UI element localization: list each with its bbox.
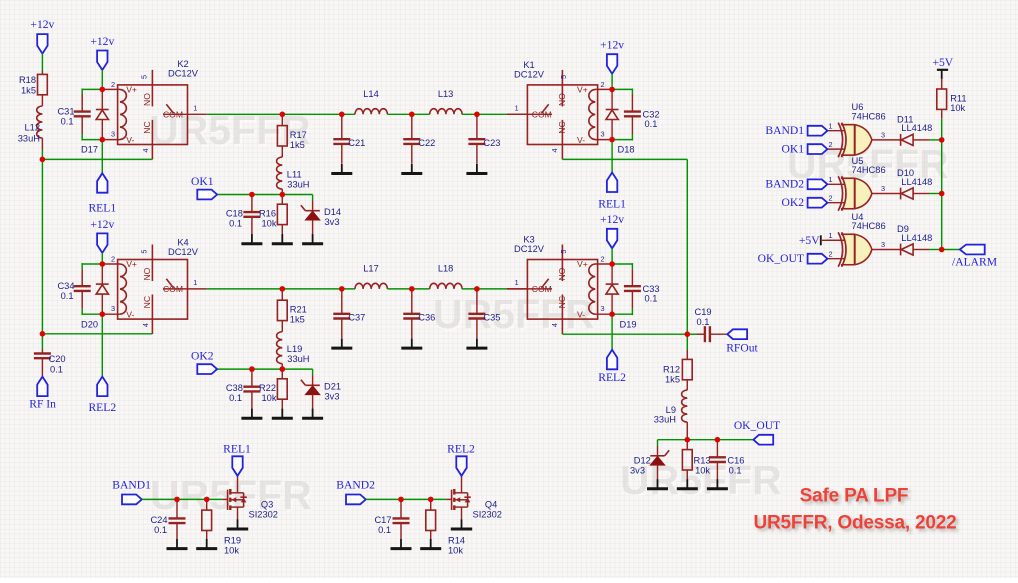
svg-text:NC: NC — [557, 296, 567, 308]
svg-text:0.1: 0.1 — [61, 291, 74, 301]
port OK_OUT — [753, 435, 773, 445]
wire — [102, 139, 120, 141]
svg-text:R11: R11 — [950, 93, 966, 103]
junction dots overlay — [40, 87, 945, 503]
svg-text:74HC86: 74HC86 — [852, 165, 886, 175]
svg-text:REL2: REL2 — [447, 443, 475, 456]
svg-text:0.1: 0.1 — [645, 294, 658, 304]
wire — [41, 54, 43, 71]
svg-text:+12v: +12v — [600, 213, 624, 226]
svg-text:OK1: OK1 — [781, 142, 804, 155]
diode D19 — [611, 264, 613, 284]
svg-text:OK2: OK2 — [191, 350, 214, 363]
diode D17 — [101, 89, 103, 109]
wire — [102, 88, 120, 90]
svg-text:V-: V- — [577, 135, 585, 145]
svg-text:33uH: 33uH — [287, 179, 309, 189]
svg-text:RF In: RF In — [29, 398, 56, 411]
resistor R17 / inductor L11 / OK1 net — [281, 114, 283, 125]
svg-text:SI2302: SI2302 — [473, 510, 502, 520]
svg-text:C36: C36 — [418, 313, 435, 323]
svg-text:REL1: REL1 — [223, 443, 251, 456]
svg-text:BAND1: BAND1 — [112, 479, 151, 492]
svg-text:R12: R12 — [663, 365, 680, 375]
wire — [101, 253, 103, 264]
port /ALARM — [960, 245, 985, 255]
svg-text:33uH: 33uH — [654, 415, 676, 425]
svg-text:1: 1 — [829, 231, 833, 240]
inductor L12 — [37, 106, 43, 138]
svg-text:L14: L14 — [363, 89, 379, 99]
svg-text:3: 3 — [111, 304, 115, 313]
svg-text:C21: C21 — [348, 138, 365, 148]
svg-text:OK_OUT: OK_OUT — [758, 252, 804, 265]
svg-text:2: 2 — [829, 194, 833, 203]
capacitor C21 — [341, 114, 343, 139]
svg-text:3v3: 3v3 — [325, 217, 340, 227]
svg-text:R14: R14 — [448, 536, 465, 546]
svg-text:1: 1 — [193, 104, 197, 113]
wire — [611, 248, 613, 264]
wire — [562, 333, 687, 335]
svg-text:R22: R22 — [259, 383, 276, 393]
svg-text:UR5FFR, Odessa, 2022: UR5FFR, Odessa, 2022 — [754, 513, 957, 534]
svg-text:K3: K3 — [523, 235, 534, 245]
svg-text:DC12V: DC12V — [514, 70, 545, 80]
svg-text:C34: C34 — [57, 281, 74, 291]
svg-text:+12v: +12v — [90, 35, 114, 48]
capacitor C22 — [411, 114, 413, 139]
svg-text:1k5: 1k5 — [290, 140, 305, 150]
port REL2 — [456, 456, 466, 476]
svg-text:1: 1 — [515, 104, 519, 113]
port REL1 — [97, 173, 107, 193]
svg-text:R16: R16 — [259, 209, 276, 219]
capacitor C33 — [612, 263, 632, 265]
svg-text:V-: V- — [126, 135, 134, 145]
svg-text:D19: D19 — [620, 320, 637, 330]
svg-text:R19: R19 — [224, 536, 241, 546]
svg-text:D18: D18 — [618, 145, 635, 155]
svg-text:V-: V- — [126, 309, 134, 319]
svg-text:1: 1 — [829, 121, 833, 130]
capacitor C36 — [411, 289, 413, 314]
svg-text:R18: R18 — [19, 75, 36, 85]
svg-text:10k: 10k — [695, 465, 710, 475]
wire — [101, 140, 103, 174]
svg-text:2: 2 — [111, 80, 115, 89]
relay K2 — [118, 85, 188, 145]
svg-text:C16: C16 — [727, 455, 744, 465]
svg-text:REL2: REL2 — [598, 371, 626, 384]
svg-text:C31: C31 — [57, 107, 74, 117]
capacitor C34 — [82, 263, 102, 265]
svg-text:5: 5 — [140, 75, 149, 79]
wire — [101, 70, 103, 89]
svg-text:3: 3 — [881, 131, 885, 140]
port RFOut — [727, 329, 747, 339]
svg-text:3: 3 — [881, 240, 885, 249]
svg-text:D21: D21 — [324, 382, 341, 392]
svg-text:COM: COM — [532, 110, 552, 120]
svg-text:R17: R17 — [290, 130, 307, 140]
wire — [102, 263, 120, 265]
svg-text:OK2: OK2 — [781, 196, 804, 209]
svg-text:R13: R13 — [694, 455, 711, 465]
wire — [611, 314, 613, 350]
svg-text:NC: NC — [142, 121, 152, 133]
svg-text:5: 5 — [140, 250, 149, 254]
svg-text:C23: C23 — [483, 138, 500, 148]
port REL2 — [607, 350, 617, 370]
svg-text:L11: L11 — [287, 170, 302, 180]
capacitor C35 — [476, 289, 478, 314]
capacitor C23 — [476, 114, 478, 139]
diode D12 — [657, 440, 659, 446]
svg-text:C35: C35 — [483, 313, 500, 323]
svg-text:COM: COM — [163, 284, 183, 294]
svg-text:/ALARM: /ALARM — [952, 256, 997, 269]
relay K3 — [527, 260, 597, 320]
port REL2 — [97, 377, 107, 397]
svg-text:BAND2: BAND2 — [765, 178, 804, 191]
port OK2 — [197, 364, 217, 374]
svg-text:C33: C33 — [643, 284, 660, 294]
wire — [562, 158, 687, 160]
port REL1 — [607, 173, 617, 193]
svg-text:3v3: 3v3 — [630, 465, 645, 475]
wire — [595, 88, 612, 90]
svg-text:C19: C19 — [695, 307, 712, 317]
svg-text:L17: L17 — [363, 264, 379, 274]
svg-text:0.1: 0.1 — [645, 119, 658, 129]
svg-text:C24: C24 — [150, 515, 167, 525]
diode D20 — [101, 264, 103, 284]
svg-text:OK_OUT: OK_OUT — [734, 419, 780, 432]
svg-text:10k: 10k — [224, 546, 239, 556]
svg-text:K1: K1 — [523, 60, 534, 70]
svg-text:3: 3 — [111, 130, 115, 139]
xor gate U4 — [826, 239, 844, 241]
svg-text:UR5FFR: UR5FFR — [433, 291, 595, 337]
svg-text:1: 1 — [193, 278, 197, 287]
svg-text:C17: C17 — [374, 515, 391, 525]
wire — [41, 159, 43, 333]
svg-text:10k: 10k — [262, 219, 277, 229]
svg-text:+12v: +12v — [30, 18, 54, 31]
svg-text:D20: D20 — [81, 320, 98, 330]
svg-text:NO: NO — [557, 267, 567, 280]
svg-text:COM: COM — [532, 284, 552, 294]
xor gate U5 — [826, 183, 844, 185]
svg-text:+12v: +12v — [90, 218, 114, 231]
inductor L9 — [682, 390, 688, 422]
wire — [102, 313, 120, 315]
svg-text:33uH: 33uH — [287, 354, 309, 364]
svg-text:1k5: 1k5 — [21, 86, 36, 96]
svg-text:2: 2 — [601, 255, 605, 264]
svg-text:10k: 10k — [262, 393, 277, 403]
svg-text:0.1: 0.1 — [697, 317, 710, 327]
svg-text:C37: C37 — [348, 313, 365, 323]
svg-text:OK1: OK1 — [191, 175, 214, 188]
svg-text:0.1: 0.1 — [61, 117, 74, 127]
svg-text:74HC86: 74HC86 — [852, 221, 886, 231]
svg-text:2: 2 — [829, 250, 833, 259]
svg-text:C20: C20 — [49, 354, 66, 364]
svg-text:R21: R21 — [290, 305, 307, 315]
svg-text:V+: V+ — [126, 259, 137, 269]
svg-text:1k5: 1k5 — [290, 315, 305, 325]
svg-text:V-: V- — [577, 309, 585, 319]
wire — [42, 158, 152, 160]
svg-text:1: 1 — [829, 175, 833, 184]
svg-text:K2: K2 — [177, 59, 188, 69]
svg-text:NO: NO — [557, 93, 567, 106]
svg-text:LL4148: LL4148 — [901, 177, 932, 187]
svg-text:BAND1: BAND1 — [765, 124, 804, 137]
wire — [658, 439, 754, 441]
svg-text:UR5FFR: UR5FFR — [150, 472, 312, 518]
capacitor C37 — [341, 289, 343, 314]
svg-text:V+: V+ — [577, 85, 588, 95]
svg-text:L13: L13 — [438, 89, 454, 99]
svg-text:DC12V: DC12V — [514, 244, 545, 254]
svg-text:0.1: 0.1 — [729, 465, 742, 475]
transistor Q3 section wires — [142, 498, 222, 500]
relay K1 — [527, 85, 597, 145]
svg-text:L9: L9 — [666, 405, 676, 415]
svg-text:DC12V: DC12V — [168, 247, 199, 257]
wire — [595, 313, 612, 315]
svg-text:Q3: Q3 — [261, 499, 273, 509]
wire — [595, 139, 612, 141]
svg-text:0.1: 0.1 — [378, 525, 391, 535]
svg-text:10k: 10k — [950, 103, 965, 113]
svg-text:0.1: 0.1 — [154, 525, 167, 535]
svg-text:C22: C22 — [418, 138, 435, 148]
svg-text:3v3: 3v3 — [325, 392, 340, 402]
port REL1 — [232, 456, 242, 476]
svg-text:NO: NO — [142, 93, 152, 106]
diode D18 — [611, 89, 613, 109]
svg-text:NC: NC — [557, 121, 567, 133]
svg-text:NC: NC — [142, 296, 152, 308]
svg-text:D14: D14 — [324, 207, 341, 217]
wire — [611, 74, 613, 90]
svg-text:4: 4 — [550, 323, 559, 327]
svg-text:LL4148: LL4148 — [901, 123, 932, 133]
resistor R18 — [41, 71, 43, 74]
wire — [42, 333, 152, 335]
svg-text:4: 4 — [141, 148, 150, 152]
xor gate U6 — [826, 130, 844, 132]
resistor R13 — [686, 440, 688, 450]
resistor R12 — [686, 334, 688, 350]
svg-text:BAND2: BAND2 — [336, 479, 375, 492]
svg-text:V+: V+ — [126, 85, 137, 95]
svg-text:K4: K4 — [177, 238, 188, 248]
svg-text:2: 2 — [601, 80, 605, 89]
svg-text:Safe PA LPF: Safe PA LPF — [800, 486, 909, 507]
svg-text:DC12V: DC12V — [168, 69, 199, 79]
port RF In — [37, 377, 47, 397]
svg-text:3: 3 — [881, 184, 885, 193]
pin 1 — [507, 113, 527, 115]
wire — [101, 314, 103, 376]
wire — [188, 288, 207, 290]
wire — [942, 249, 960, 251]
wire — [686, 159, 688, 334]
svg-text:L19: L19 — [287, 344, 303, 354]
svg-text:L12: L12 — [24, 123, 40, 133]
resistor R11 — [941, 79, 943, 89]
svg-text:+5V: +5V — [932, 56, 953, 69]
svg-text:C32: C32 — [643, 110, 660, 120]
svg-text:COM: COM — [163, 110, 183, 120]
svg-text:5: 5 — [559, 250, 568, 254]
pin 1 — [507, 288, 527, 290]
svg-text:+12v: +12v — [600, 39, 624, 52]
transistor Q4 section wires — [366, 498, 446, 500]
svg-text:0.1: 0.1 — [229, 393, 242, 403]
svg-text:74HC86: 74HC86 — [852, 112, 886, 122]
svg-text:V+: V+ — [577, 259, 588, 269]
wire — [188, 113, 207, 115]
svg-text:LL4148: LL4148 — [901, 233, 932, 243]
svg-text:33uH: 33uH — [18, 134, 40, 144]
relay K4 — [118, 260, 188, 320]
capacitor C31 — [82, 88, 102, 90]
svg-text:3: 3 — [601, 130, 605, 139]
svg-text:3: 3 — [601, 304, 605, 313]
port OK1 — [197, 190, 217, 200]
svg-text:5: 5 — [559, 75, 568, 79]
svg-text:C38: C38 — [226, 383, 243, 393]
svg-text:REL2: REL2 — [88, 401, 116, 414]
svg-text:NO: NO — [142, 267, 152, 280]
wire — [41, 150, 43, 159]
svg-text:4: 4 — [550, 148, 559, 152]
svg-text:D12: D12 — [634, 455, 651, 465]
svg-text:REL1: REL1 — [598, 198, 626, 211]
capacitor C19 — [687, 333, 696, 335]
svg-text:C18: C18 — [226, 209, 243, 219]
svg-text:RFOut: RFOut — [726, 342, 758, 355]
wire — [611, 140, 613, 173]
svg-text:0.1: 0.1 — [50, 364, 63, 374]
capacitor C20 — [41, 334, 43, 349]
resistor R21 / inductor L19 / OK2 net — [281, 289, 283, 300]
svg-text:1k5: 1k5 — [665, 374, 680, 384]
svg-text:SI2302: SI2302 — [249, 510, 278, 520]
svg-text:2: 2 — [829, 140, 833, 149]
svg-text:Q4: Q4 — [485, 499, 497, 509]
capacitor C16 — [716, 440, 718, 458]
wire — [595, 263, 612, 265]
capacitor C32 — [612, 88, 632, 90]
svg-text:10k: 10k — [448, 546, 463, 556]
svg-text:+5V: +5V — [799, 234, 820, 247]
wire — [941, 119, 943, 250]
svg-text:REL1: REL1 — [88, 202, 116, 215]
svg-text:1: 1 — [515, 278, 519, 287]
svg-text:0.1: 0.1 — [229, 219, 242, 229]
svg-text:D17: D17 — [81, 145, 98, 155]
svg-text:2: 2 — [111, 255, 115, 264]
svg-text:L18: L18 — [438, 264, 454, 274]
svg-text:4: 4 — [141, 323, 150, 327]
